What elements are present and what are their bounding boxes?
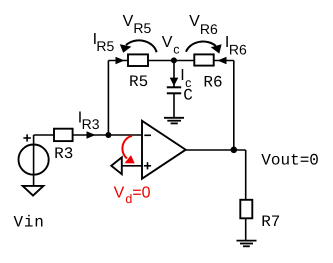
- resistor R6: [194, 54, 213, 65]
- wire R7 to ground: [245, 218, 247, 240]
- ground at R7: [237, 241, 257, 247]
- svg-text:C: C: [183, 87, 193, 105]
- op-amp plus sign: [144, 162, 151, 169]
- wire R3 to minus node: [73, 134, 109, 136]
- svg-text:V: V: [162, 34, 173, 51]
- op-amp minus sign: [144, 134, 151, 136]
- svg-text:V: V: [189, 13, 200, 30]
- resistor R7: [240, 200, 252, 219]
- wire R5 to Vc: [148, 60, 194, 62]
- wire Vin top: [34, 134, 54, 136]
- resistor R5: [128, 54, 148, 66]
- wire capacitor to ground: [173, 93, 175, 118]
- arrowhead of V_d: [125, 155, 135, 163]
- current arrow I_C: [170, 78, 179, 86]
- resistor R3: [54, 129, 73, 141]
- label V_R6: [189, 13, 218, 37]
- ground at capacitor: [164, 118, 184, 124]
- svg-text:R3: R3: [82, 116, 100, 132]
- wire R6 to right corner: [214, 60, 234, 62]
- svg-text:Vin: Vin: [14, 213, 45, 231]
- capacitor C: [167, 87, 181, 93]
- svg-text:R5: R5: [129, 73, 148, 91]
- label V_d=0 red: [114, 185, 151, 206]
- wire top-left vertical (node A to minus input): [107, 61, 109, 136]
- wire plus input: [122, 165, 142, 167]
- label V_R5: [123, 13, 152, 36]
- current arrow I_R3: [87, 131, 96, 139]
- wire output: [186, 149, 246, 151]
- svg-text:R6: R6: [229, 41, 247, 57]
- source Vin: [18, 145, 48, 175]
- voltage arc V_R5: [126, 40, 157, 52]
- voltage arc V_R6: [186, 42, 216, 52]
- current arrow I_R5: [116, 57, 125, 65]
- node output dot: [231, 147, 238, 154]
- op-amp U1: [142, 121, 186, 179]
- svg-text:V: V: [123, 13, 134, 30]
- current arrow I_R6: [218, 57, 227, 65]
- arrowhead of V_R6: [211, 44, 222, 53]
- node Vc dot: [171, 57, 177, 63]
- label V_c node: [162, 34, 180, 56]
- wire minus input: [108, 134, 142, 136]
- svg-text:R7: R7: [261, 213, 280, 231]
- arrowhead of V_R5: [120, 44, 132, 53]
- svg-text:I: I: [180, 67, 184, 84]
- svg-text:c: c: [173, 43, 179, 57]
- node minus-input dot: [105, 132, 111, 138]
- svg-text:R6: R6: [200, 21, 218, 37]
- wire right vertical (to output node): [233, 61, 235, 151]
- svg-text:R5: R5: [133, 20, 151, 36]
- label I_R3: [78, 110, 100, 132]
- label I_R6: [225, 34, 247, 58]
- label I_R5: [93, 31, 115, 54]
- ground triangle at plus input: [111, 157, 122, 174]
- wire output down to R7: [245, 150, 247, 200]
- svg-text:V: V: [114, 185, 125, 202]
- red arc V_d: [122, 136, 132, 159]
- svg-text:=0: =0: [132, 185, 150, 202]
- ground triangle under Vin: [23, 186, 44, 196]
- svg-text:R3: R3: [54, 145, 73, 163]
- wire Vin vertical through source: [33, 135, 35, 186]
- wire Vc to capacitor: [173, 61, 175, 88]
- svg-text:R5: R5: [96, 38, 114, 54]
- label I_c: [180, 67, 191, 90]
- svg-text:Vout=0: Vout=0: [261, 152, 319, 170]
- wire top horizontal left segment: [108, 60, 128, 62]
- plus polarity of Vin: [23, 134, 30, 141]
- svg-text:R6: R6: [203, 73, 222, 91]
